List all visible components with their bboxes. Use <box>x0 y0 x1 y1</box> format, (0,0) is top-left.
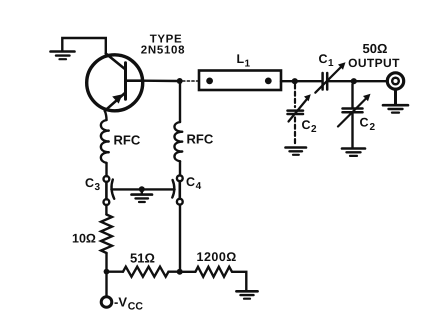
resistor 1200 ohm <box>183 267 247 291</box>
node C3/C4 ground junction <box>139 186 145 192</box>
ground (output jack) <box>383 105 408 112</box>
ground (C2 left) <box>286 148 307 155</box>
inductor RFC2 <box>174 122 182 161</box>
svg-text:51Ω: 51Ω <box>130 251 155 266</box>
svg-text:2N5108: 2N5108 <box>141 45 185 57</box>
label C2 (left) <box>302 118 318 135</box>
svg-text:-V: -V <box>114 295 127 310</box>
capacitor C2 left (variable, dashed link) <box>288 85 311 147</box>
label 50ohm OUTPUT <box>348 41 400 70</box>
svg-text:OUTPUT: OUTPUT <box>348 56 400 70</box>
wire RFC2 to C4 <box>179 161 181 175</box>
capacitor C1 (series variable) <box>315 62 345 92</box>
svg-text:C: C <box>319 52 328 66</box>
ground (1200 ohm) <box>236 291 257 298</box>
resistor 51 ohm <box>123 267 169 277</box>
svg-text:4: 4 <box>196 181 202 192</box>
wire C4 to bottom node <box>179 205 181 272</box>
svg-text:1200Ω: 1200Ω <box>197 250 237 264</box>
svg-text:C: C <box>302 118 311 132</box>
wire emitter down <box>105 111 107 120</box>
node after L1 <box>292 78 298 84</box>
inductor L1 (box) <box>199 71 281 91</box>
ground (C3/C4 junction) <box>132 189 153 202</box>
svg-text:2: 2 <box>311 124 317 135</box>
wire RFC1 to C3 <box>105 163 107 176</box>
transistor Q1 (PNP 2N5108) <box>87 54 144 111</box>
label C2 (right) <box>360 116 376 134</box>
wire collector to ground <box>62 38 106 54</box>
svg-text:RFC: RFC <box>187 132 214 147</box>
svg-text:50Ω: 50Ω <box>363 41 388 56</box>
label C1 <box>319 52 335 69</box>
ground (C2 right) <box>342 149 365 156</box>
label C3 <box>85 176 101 193</box>
node base junction <box>177 78 183 84</box>
wire base to node <box>144 79 177 82</box>
node after C1 <box>351 78 357 84</box>
inductor RFC1 <box>101 120 109 163</box>
wire L1 to node <box>281 80 292 82</box>
wire node to L1 (dotted) <box>183 80 199 82</box>
wire VCC node to 51ohm <box>107 271 124 273</box>
svg-text:10Ω: 10Ω <box>72 232 96 246</box>
svg-text:1: 1 <box>245 59 251 70</box>
connector J1 (50 ohm output coax) <box>387 73 403 105</box>
label C4 <box>186 175 202 192</box>
capacitor C4 (feedthrough) <box>145 175 183 204</box>
node bottom junction <box>177 269 183 275</box>
svg-text:C: C <box>85 176 94 190</box>
wire node to output jack <box>357 80 387 82</box>
label L1 <box>237 52 251 70</box>
svg-text:CC: CC <box>128 301 144 313</box>
node VCC junction <box>104 269 110 275</box>
svg-text:1: 1 <box>328 58 334 69</box>
ground (collector, top-left) <box>51 52 75 60</box>
wire C1 to node <box>327 80 351 82</box>
capacitor C2 right (variable) <box>338 84 371 147</box>
label -VCC <box>114 295 143 313</box>
label TYPE 2N5108 <box>141 34 185 57</box>
svg-text:2: 2 <box>370 122 376 133</box>
svg-text:L: L <box>237 52 245 66</box>
wire node down to RFC2 <box>179 84 181 122</box>
wire 51ohm to bottom node <box>169 271 177 273</box>
svg-text:RFC: RFC <box>114 133 141 148</box>
wire node to C1 <box>298 80 322 82</box>
wire C3 to 10ohm <box>105 205 107 215</box>
svg-text:3: 3 <box>95 182 101 193</box>
resistor 10 ohm <box>101 215 112 254</box>
terminal -VCC <box>101 275 112 308</box>
wire 10ohm to VCC node <box>105 253 107 269</box>
svg-text:C: C <box>360 116 369 130</box>
capacitor C3 (feedthrough) <box>104 176 140 205</box>
svg-text:C: C <box>186 175 195 189</box>
